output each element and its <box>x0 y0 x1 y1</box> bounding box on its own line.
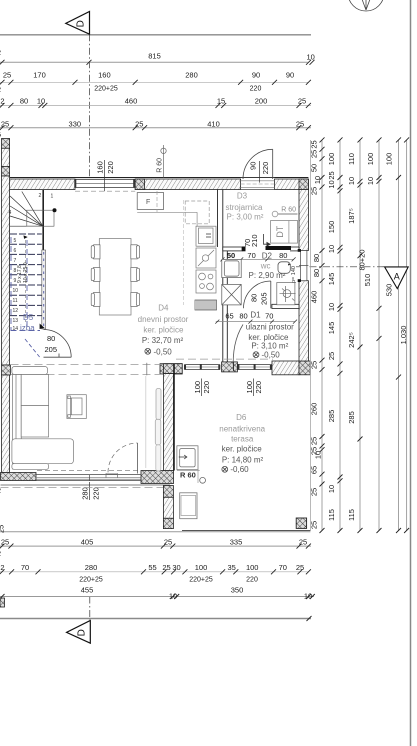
door D3 leaf and swing arc <box>243 149 273 179</box>
svg-text:DT: DT <box>275 225 285 237</box>
svg-text:5: 5 <box>0 130 1 139</box>
planter <box>180 493 197 519</box>
window 160 in top wall <box>74 179 135 191</box>
gray dashed gallery lines over living room <box>11 364 164 366</box>
svg-text:13: 13 <box>13 318 19 324</box>
top exterior wall outer line <box>2 177 309 179</box>
svg-text:220+25: 220+25 <box>189 576 213 583</box>
svg-text:D1: D1 <box>250 311 261 320</box>
svg-text:70: 70 <box>21 563 29 572</box>
svg-text:7: 7 <box>14 258 17 264</box>
dashed upper cabinets <box>185 201 209 224</box>
svg-text:100: 100 <box>193 381 202 394</box>
svg-text:10 x 25,0: 10 x 25,0 <box>23 262 29 283</box>
right exterior wall <box>299 190 308 251</box>
svg-text:10: 10 <box>327 180 336 188</box>
svg-text:izba: izba <box>20 324 35 333</box>
bottom row 3 <box>0 596 314 598</box>
svg-text:460: 460 <box>125 97 138 106</box>
top wall hatched segment right <box>275 179 309 190</box>
svg-text:220: 220 <box>250 85 262 92</box>
svg-text:1.030: 1.030 <box>399 326 408 345</box>
svg-text:242⁵: 242⁵ <box>347 332 356 348</box>
svg-text:10: 10 <box>13 288 19 294</box>
svg-text:2: 2 <box>0 48 1 57</box>
svg-text:25: 25 <box>310 140 319 148</box>
svg-text:10: 10 <box>313 176 322 184</box>
svg-text:220: 220 <box>202 381 211 394</box>
svg-text:70: 70 <box>247 251 255 260</box>
svg-text:D6: D6 <box>236 413 247 422</box>
top dimension row 2 <box>0 81 308 83</box>
svg-text:220: 220 <box>91 487 100 500</box>
svg-text:100: 100 <box>385 153 394 166</box>
pillar B <box>222 362 238 372</box>
door 90/220 label <box>249 161 271 183</box>
svg-text:80: 80 <box>20 97 28 106</box>
svg-text:D4: D4 <box>158 304 169 313</box>
svg-text:ker. pločice: ker. pločice <box>222 445 263 454</box>
svg-text:280: 280 <box>185 71 198 80</box>
svg-text:2: 2 <box>39 193 42 199</box>
top dimension row 4 <box>0 127 311 129</box>
svg-text:6: 6 <box>14 248 17 254</box>
right top corner column <box>299 179 308 190</box>
svg-text:280: 280 <box>81 487 90 500</box>
upper flight blue dashed outline <box>11 237 41 331</box>
svg-text:P: 14,80 m²: P: 14,80 m² <box>222 456 264 465</box>
DT boiler <box>271 221 298 244</box>
pillar right of window 280 <box>141 471 174 484</box>
svg-text:80+20: 80+20 <box>358 249 367 270</box>
svg-text:P: 3,00 m²: P: 3,00 m² <box>227 213 264 222</box>
svg-text:P: 3,10 m²: P: 3,10 m² <box>251 342 288 351</box>
svg-text:10: 10 <box>366 177 375 185</box>
svg-text:100: 100 <box>195 563 208 572</box>
svg-text:115: 115 <box>327 509 336 521</box>
svg-text:65: 65 <box>225 312 233 321</box>
sliding door panel at living room east opening <box>156 389 161 420</box>
svg-text:P: 32,70 m²: P: 32,70 m² <box>142 336 184 345</box>
south wall segment C <box>272 361 299 375</box>
svg-text:187⁵: 187⁵ <box>347 208 356 224</box>
section marker A right <box>296 267 408 289</box>
svg-text:530: 530 <box>385 284 394 297</box>
svg-text:D3: D3 <box>237 192 248 201</box>
svg-text:15: 15 <box>217 97 225 106</box>
svg-text:wc: wc <box>260 262 271 271</box>
svg-text:14: 14 <box>13 326 19 332</box>
svg-text:25: 25 <box>1 538 9 547</box>
svg-text:350: 350 <box>231 586 244 595</box>
svg-text:35: 35 <box>228 563 236 572</box>
window W1 100/220 <box>184 364 220 370</box>
svg-text:2: 2 <box>0 563 4 572</box>
cooktop <box>196 270 216 293</box>
svg-text:1: 1 <box>51 194 54 200</box>
svg-text:terasa: terasa <box>231 435 254 444</box>
right dimension columns <box>322 140 407 531</box>
kitchen partition wall <box>217 190 219 248</box>
svg-text:205: 205 <box>260 292 269 305</box>
svg-text:25: 25 <box>135 119 143 128</box>
top wall hatched segment left <box>10 179 75 190</box>
dishwasher <box>196 248 216 268</box>
bottom wall of living room <box>1 473 37 481</box>
extension line terrace bottom <box>0 531 310 533</box>
svg-text:10: 10 <box>307 53 315 62</box>
svg-text:50: 50 <box>227 251 235 260</box>
toilet <box>277 283 296 305</box>
bottom row 1 <box>0 545 311 547</box>
dot <box>53 208 57 212</box>
svg-text:815: 815 <box>148 52 161 61</box>
svg-text:D: D <box>76 629 87 636</box>
tick on frame bottom line <box>307 616 312 621</box>
svg-text:dnevni prostor: dnevni prostor <box>138 315 189 324</box>
svg-text:10: 10 <box>37 97 45 106</box>
wc bottom wall <box>272 304 299 308</box>
window labels 100/220 <box>193 379 263 397</box>
svg-text:R 60: R 60 <box>281 207 296 214</box>
svg-text:strojarnica: strojarnica <box>226 203 263 212</box>
svg-text:30: 30 <box>172 563 180 572</box>
svg-text:D5: D5 <box>23 313 34 322</box>
svg-text:12: 12 <box>13 308 19 314</box>
column in top wall <box>135 179 144 190</box>
svg-text:410: 410 <box>207 119 220 128</box>
izba door 80/205 <box>25 324 71 358</box>
70/210 drop labels <box>243 234 271 247</box>
svg-text:65: 65 <box>310 466 319 474</box>
svg-text:nenatkrivena: nenatkrivena <box>219 424 265 433</box>
section marker D bottom <box>67 597 91 644</box>
svg-text:25: 25 <box>310 488 319 496</box>
svg-text:220+25: 220+25 <box>79 576 103 583</box>
svg-text:D2: D2 <box>262 252 273 261</box>
svg-text:100: 100 <box>327 153 336 166</box>
frame top line <box>0 34 311 36</box>
dashed swing arc at window 280 <box>108 443 138 472</box>
washing machine niche <box>222 259 241 277</box>
shaft box with X <box>222 284 241 305</box>
svg-text:-0,50: -0,50 <box>262 351 281 360</box>
step numbers <box>9 193 54 332</box>
terrace corner pillar <box>296 518 306 528</box>
svg-text:10: 10 <box>169 591 177 600</box>
svg-text:25: 25 <box>327 171 336 179</box>
svg-text:90: 90 <box>249 162 258 170</box>
hall partition wall <box>222 251 224 362</box>
svg-text:115: 115 <box>347 509 356 521</box>
svg-text:p= 140: p= 140 <box>291 266 297 283</box>
svg-text:210: 210 <box>250 234 259 247</box>
top dimension row 3 <box>0 104 311 106</box>
terrace boundary <box>309 140 311 531</box>
window 280/220+25 label <box>81 482 101 500</box>
svg-text:R 60: R 60 <box>180 471 196 480</box>
svg-text:25: 25 <box>310 150 319 158</box>
svg-text:330: 330 <box>69 119 82 128</box>
svg-text:25: 25 <box>299 538 307 547</box>
svg-text:200: 200 <box>255 97 268 106</box>
window 160/220 label <box>95 160 115 191</box>
svg-text:25: 25 <box>310 521 319 529</box>
svg-text:220+25: 220+25 <box>94 85 118 92</box>
svg-text:25: 25 <box>3 71 11 80</box>
svg-text:10: 10 <box>314 451 323 459</box>
svg-text:90: 90 <box>286 71 294 80</box>
svg-text:ker. pločice: ker. pločice <box>143 326 184 335</box>
svg-text:80: 80 <box>47 334 55 343</box>
svg-text:80: 80 <box>312 269 321 277</box>
svg-text:F: F <box>146 199 150 206</box>
stair opening rectangle <box>27 210 54 226</box>
sofa <box>12 367 74 470</box>
lower cabinet hatch <box>195 300 217 310</box>
top dimension row 815 <box>0 61 308 63</box>
wc top wall <box>223 247 242 251</box>
svg-text:405: 405 <box>81 538 94 547</box>
living room right wall (to terrace) <box>164 364 183 374</box>
svg-text:220: 220 <box>261 162 270 175</box>
section marker D top <box>66 12 90 178</box>
svg-text:145: 145 <box>327 322 336 335</box>
svg-text:10: 10 <box>304 591 312 600</box>
dining table <box>99 239 131 315</box>
svg-text:170: 170 <box>33 71 46 80</box>
svg-text:R 60: R 60 <box>157 158 164 173</box>
svg-text:25: 25 <box>327 352 336 360</box>
top wall hatched segment middle <box>135 179 240 190</box>
wc window 80+80 <box>291 249 308 283</box>
svg-text:25: 25 <box>162 563 170 572</box>
chairs <box>91 245 139 307</box>
wc door D2 <box>244 281 271 308</box>
svg-text:10: 10 <box>327 245 336 253</box>
svg-text:150: 150 <box>327 221 336 234</box>
door D1 arc <box>233 325 243 371</box>
svg-text:25: 25 <box>1 119 9 128</box>
winder steps <box>10 192 43 227</box>
svg-text:285: 285 <box>327 410 336 423</box>
svg-text:510: 510 <box>363 274 372 287</box>
svg-text:80: 80 <box>250 294 259 302</box>
svg-text:280: 280 <box>85 563 98 572</box>
sliding window 280 in bottom wall <box>36 473 141 480</box>
svg-text:11: 11 <box>13 298 18 304</box>
stair edge wall line <box>42 190 44 250</box>
svg-text:90: 90 <box>252 71 260 80</box>
bottom row 2 <box>0 571 308 573</box>
svg-text:70: 70 <box>279 563 287 572</box>
svg-text:460: 460 <box>310 291 319 304</box>
svg-text:220: 220 <box>254 381 263 394</box>
washbasin <box>278 262 291 274</box>
svg-text:100: 100 <box>246 563 259 572</box>
svg-text:50: 50 <box>310 164 319 172</box>
svg-text:100: 100 <box>366 153 375 166</box>
svg-text:260: 260 <box>310 403 319 416</box>
svg-text:55: 55 <box>148 563 156 572</box>
svg-text:100: 100 <box>245 381 254 394</box>
left exterior wall <box>2 148 10 166</box>
svg-text:220: 220 <box>246 576 258 583</box>
AC unit <box>177 446 198 470</box>
svg-text:2: 2 <box>0 549 1 558</box>
svg-text:-0,50: -0,50 <box>154 347 173 356</box>
tv cabinet <box>67 395 86 419</box>
counter dashes <box>183 200 185 305</box>
svg-text:25: 25 <box>310 361 319 369</box>
svg-text:335: 335 <box>230 538 243 547</box>
svg-text:25: 25 <box>164 538 172 547</box>
svg-text:2: 2 <box>0 85 1 94</box>
svg-text:160: 160 <box>98 71 111 80</box>
svg-text:455: 455 <box>81 586 94 595</box>
svg-text:25: 25 <box>310 437 319 445</box>
svg-text:4: 4 <box>9 210 12 216</box>
svg-text:205: 205 <box>45 345 58 354</box>
svg-text:A: A <box>394 272 400 282</box>
left margin cut fragments <box>0 486 6 533</box>
svg-text:110: 110 <box>347 153 356 165</box>
thin stair wall with blue dash <box>42 250 46 329</box>
svg-text:25: 25 <box>310 187 319 195</box>
treads dashed <box>10 234 42 316</box>
svg-text:80: 80 <box>239 312 247 321</box>
svg-text:ulazni prostor: ulazni prostor <box>246 323 294 332</box>
svg-text:80: 80 <box>279 251 287 260</box>
svg-text:220: 220 <box>106 161 115 174</box>
kitchen sink unit <box>196 226 216 246</box>
rain pipe R60 at facade <box>157 145 167 178</box>
svg-text:25: 25 <box>296 119 304 128</box>
frame right border <box>410 0 412 746</box>
svg-text:145: 145 <box>327 273 336 286</box>
door D3 opening sill lines <box>241 177 275 179</box>
svg-text:25: 25 <box>298 97 306 106</box>
walk line dashed with arrow <box>25 240 27 322</box>
svg-text:D: D <box>76 20 87 27</box>
south wall of main wing : pillar A <box>160 364 182 374</box>
svg-text:285: 285 <box>347 411 356 424</box>
north symbol circle <box>348 0 384 11</box>
svg-text:10: 10 <box>347 177 356 185</box>
svg-text:2: 2 <box>0 97 4 106</box>
small hatch fragment bottom left <box>0 598 5 607</box>
window W2 100/220 <box>237 364 272 370</box>
svg-text:5: 5 <box>14 238 17 244</box>
svg-text:25: 25 <box>0 525 6 533</box>
svg-text:10: 10 <box>327 485 336 493</box>
frame bottom line <box>0 618 311 620</box>
svg-text:-0,60: -0,60 <box>230 465 249 474</box>
svg-text:160: 160 <box>95 161 104 174</box>
fridge F <box>137 193 163 210</box>
svg-text:25: 25 <box>296 563 304 572</box>
svg-text:70: 70 <box>265 312 273 321</box>
svg-text:80: 80 <box>312 254 321 262</box>
svg-text:10: 10 <box>327 303 336 311</box>
south wall corner column <box>299 361 310 375</box>
